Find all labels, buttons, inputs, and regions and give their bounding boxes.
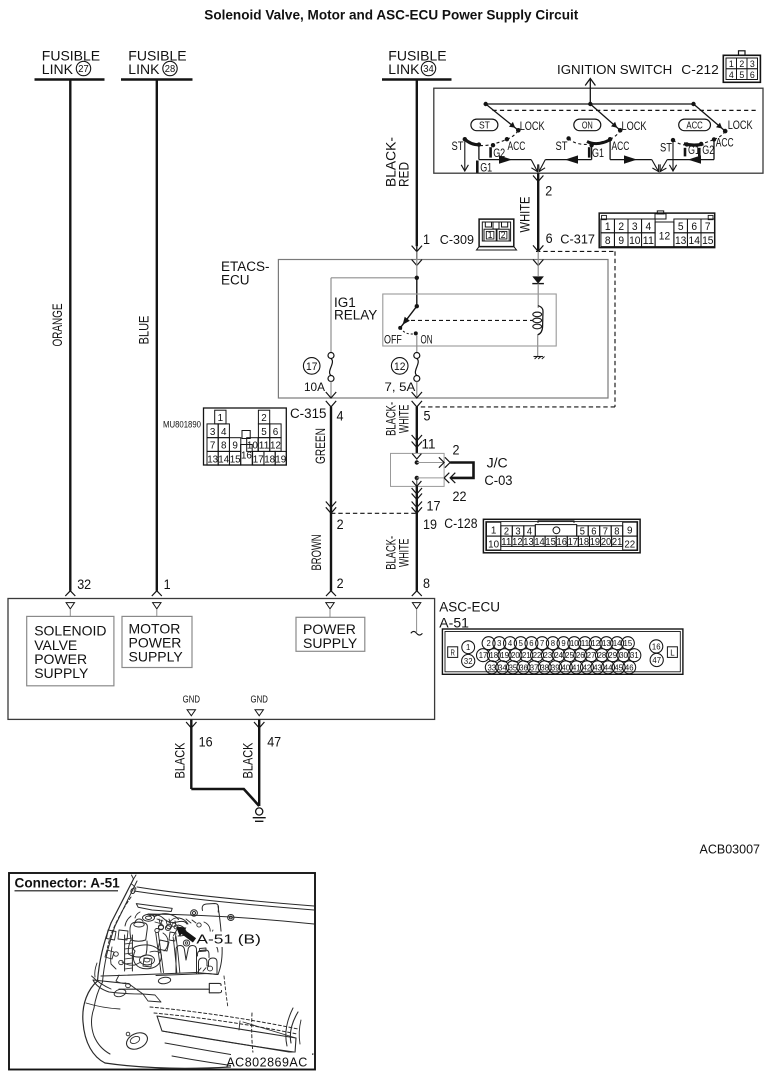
svg-text:ECU: ECU [221, 273, 250, 288]
svg-text:43: 43 [593, 662, 602, 672]
svg-text:RELAY: RELAY [334, 308, 377, 323]
svg-text:7: 7 [210, 440, 216, 452]
svg-text:21: 21 [612, 537, 623, 548]
svg-text:14: 14 [689, 235, 700, 247]
svg-text:13: 13 [523, 537, 534, 548]
svg-text:12: 12 [591, 638, 600, 648]
svg-text:3: 3 [632, 221, 638, 233]
svg-text:8: 8 [423, 576, 430, 591]
svg-text:1: 1 [488, 230, 493, 240]
svg-text:ACC: ACC [686, 120, 703, 132]
svg-text:1: 1 [423, 232, 430, 247]
svg-text:SUPPLY: SUPPLY [34, 665, 89, 681]
svg-text:1: 1 [491, 524, 497, 536]
svg-text:12: 12 [659, 231, 670, 243]
svg-text:8: 8 [605, 235, 611, 247]
svg-text:11: 11 [422, 436, 436, 451]
svg-text:ST: ST [479, 120, 490, 132]
svg-text:22: 22 [453, 489, 467, 504]
svg-text:5: 5 [678, 221, 684, 233]
svg-text:Connector: A-51: Connector: A-51 [15, 876, 121, 891]
svg-text:GND: GND [183, 694, 201, 706]
svg-text:1: 1 [605, 221, 611, 233]
svg-text:LOCK: LOCK [520, 119, 545, 133]
svg-text:7: 7 [705, 221, 711, 233]
svg-text:15: 15 [545, 537, 556, 548]
svg-text:5: 5 [519, 638, 523, 648]
svg-text:26: 26 [576, 650, 585, 660]
svg-text:20: 20 [601, 537, 612, 548]
svg-text:17: 17 [568, 537, 579, 548]
svg-text:28: 28 [165, 64, 176, 75]
svg-text:17: 17 [306, 361, 317, 373]
svg-text:14: 14 [534, 537, 545, 548]
svg-text:4: 4 [337, 408, 344, 423]
svg-text:R: R [451, 647, 455, 657]
svg-text:10: 10 [488, 538, 499, 550]
svg-text:A-51 (B): A-51 (B) [196, 932, 261, 947]
svg-text:46: 46 [625, 662, 634, 672]
svg-text:12: 12 [512, 537, 523, 548]
svg-text:30: 30 [619, 650, 628, 660]
svg-text:47: 47 [652, 655, 661, 665]
svg-text:10A: 10A [304, 382, 325, 394]
svg-text:BLACK: BLACK [241, 742, 256, 779]
svg-text:C-309: C-309 [440, 232, 474, 247]
svg-text:18: 18 [490, 650, 499, 660]
svg-text:5: 5 [261, 426, 267, 438]
svg-text:1: 1 [466, 642, 470, 652]
svg-text:WHITE: WHITE [397, 539, 412, 568]
svg-text:32: 32 [77, 577, 91, 592]
svg-text:42: 42 [583, 662, 592, 672]
svg-text:11: 11 [581, 638, 590, 648]
svg-text:19: 19 [590, 537, 601, 548]
svg-text:7: 7 [540, 638, 544, 648]
svg-text:17: 17 [479, 650, 488, 660]
svg-text:15: 15 [230, 453, 241, 465]
svg-text:2: 2 [486, 638, 490, 648]
svg-text:SUPPLY: SUPPLY [303, 635, 358, 651]
svg-text:LINK: LINK [128, 61, 160, 77]
svg-text:16: 16 [241, 450, 252, 462]
svg-text:12: 12 [270, 440, 281, 452]
svg-text:9: 9 [232, 440, 238, 452]
svg-text:LINK: LINK [42, 61, 74, 77]
svg-text:RED: RED [396, 162, 412, 187]
svg-text:44: 44 [604, 662, 613, 672]
svg-text:13: 13 [675, 235, 686, 247]
svg-text:25: 25 [565, 650, 574, 660]
svg-text:14: 14 [613, 638, 622, 648]
svg-text:41: 41 [572, 662, 581, 672]
svg-text:6: 6 [529, 638, 533, 648]
svg-text:GND: GND [251, 694, 269, 706]
svg-text:4: 4 [221, 426, 227, 438]
svg-text:ST: ST [452, 141, 464, 153]
svg-text:ST: ST [660, 143, 672, 155]
svg-text:37: 37 [530, 662, 539, 672]
svg-text:15: 15 [702, 235, 713, 247]
svg-text:11: 11 [501, 537, 512, 548]
svg-text:3: 3 [210, 426, 216, 438]
svg-text:24: 24 [554, 650, 563, 660]
svg-text:WHITE: WHITE [397, 405, 412, 434]
svg-text:2: 2 [337, 517, 344, 532]
svg-text:6: 6 [750, 70, 755, 81]
svg-text:2: 2 [501, 230, 506, 240]
svg-text:ACB03007: ACB03007 [700, 843, 761, 857]
svg-text:29: 29 [608, 650, 617, 660]
svg-text:2: 2 [261, 412, 267, 424]
svg-text:LOCK: LOCK [622, 119, 647, 133]
svg-text:6: 6 [691, 221, 697, 233]
svg-text:4: 4 [729, 70, 734, 81]
svg-text:14: 14 [218, 453, 229, 465]
svg-text:22: 22 [624, 538, 635, 550]
svg-text:35: 35 [509, 662, 518, 672]
svg-text:LOCK: LOCK [728, 118, 753, 132]
svg-text:LINK: LINK [388, 61, 420, 77]
svg-text:17: 17 [253, 453, 264, 465]
svg-text:19: 19 [275, 453, 286, 465]
svg-text:L: L [670, 647, 675, 657]
svg-text:21: 21 [522, 650, 531, 660]
svg-text:C-315: C-315 [290, 406, 327, 421]
svg-text:13: 13 [207, 453, 218, 465]
svg-text:34: 34 [498, 662, 507, 672]
svg-text:MU801890: MU801890 [163, 420, 201, 431]
svg-text:A-51: A-51 [439, 616, 469, 631]
svg-text:ACC: ACC [508, 141, 526, 153]
svg-text:C-03: C-03 [484, 473, 512, 488]
svg-text:18: 18 [579, 537, 590, 548]
svg-text:BLACK: BLACK [173, 742, 188, 779]
svg-text:C-128: C-128 [444, 516, 477, 531]
svg-text:BROWN: BROWN [309, 535, 324, 571]
svg-text:GREEN: GREEN [313, 428, 328, 464]
svg-text:16: 16 [199, 735, 213, 750]
svg-text:10: 10 [570, 638, 579, 648]
svg-text:9: 9 [561, 638, 565, 648]
svg-text:AC802869AC: AC802869AC [226, 1056, 307, 1070]
svg-text:1: 1 [164, 577, 171, 592]
svg-text:BLUE: BLUE [137, 316, 152, 345]
svg-text:11: 11 [643, 235, 654, 247]
svg-text:3: 3 [497, 638, 501, 648]
svg-text:5: 5 [424, 408, 431, 423]
svg-text:ASC-ECU: ASC-ECU [439, 600, 500, 615]
svg-text:5: 5 [739, 70, 744, 81]
svg-text:20: 20 [511, 650, 520, 660]
svg-text:G1: G1 [592, 148, 604, 160]
svg-text:32: 32 [464, 656, 473, 666]
svg-text:J/C: J/C [487, 455, 508, 470]
svg-text:28: 28 [598, 650, 607, 660]
svg-text:10: 10 [629, 235, 640, 247]
svg-text:40: 40 [561, 662, 570, 672]
svg-text:G2: G2 [702, 145, 714, 157]
svg-text:31: 31 [630, 650, 639, 660]
svg-text:C-212: C-212 [681, 62, 719, 77]
svg-text:ORANGE: ORANGE [50, 303, 65, 346]
svg-text:17: 17 [427, 498, 441, 513]
svg-text:G1: G1 [480, 163, 492, 175]
svg-text:16: 16 [557, 537, 568, 548]
svg-text:7, 5A: 7, 5A [385, 382, 416, 394]
svg-text:18: 18 [264, 453, 275, 465]
svg-text:C-317: C-317 [560, 231, 595, 246]
svg-text:2: 2 [337, 576, 344, 591]
svg-text:19: 19 [423, 517, 437, 532]
svg-text:8: 8 [551, 638, 555, 648]
svg-text:2: 2 [545, 183, 552, 198]
svg-text:4: 4 [508, 638, 512, 648]
svg-text:45: 45 [614, 662, 623, 672]
svg-text:6: 6 [546, 231, 553, 246]
svg-text:6: 6 [273, 426, 279, 438]
svg-text:8: 8 [221, 440, 227, 452]
svg-text:9: 9 [618, 235, 624, 247]
svg-text:ON: ON [582, 120, 593, 132]
svg-text:ON: ON [421, 335, 433, 347]
svg-text:13: 13 [602, 638, 611, 648]
svg-text:23: 23 [544, 650, 553, 660]
svg-text:WHITE: WHITE [518, 197, 533, 233]
svg-text:38: 38 [540, 662, 549, 672]
svg-text:Solenoid Valve, Motor and ASC-: Solenoid Valve, Motor and ASC-ECU Power … [204, 7, 578, 22]
svg-text:27: 27 [587, 650, 596, 660]
svg-text:47: 47 [267, 735, 281, 750]
svg-text:OFF: OFF [384, 335, 402, 347]
svg-text:11: 11 [259, 440, 270, 452]
svg-text:ST: ST [556, 141, 568, 153]
svg-text:27: 27 [78, 64, 89, 75]
svg-text:15: 15 [624, 638, 633, 648]
svg-text:ACC: ACC [716, 137, 734, 149]
svg-text:2: 2 [453, 442, 460, 457]
svg-text:22: 22 [533, 650, 542, 660]
svg-text:34: 34 [423, 64, 434, 75]
svg-text:SUPPLY: SUPPLY [129, 649, 184, 665]
svg-text:9: 9 [627, 524, 633, 536]
svg-text:2: 2 [618, 221, 624, 233]
svg-text:12: 12 [394, 361, 405, 373]
svg-text:36: 36 [519, 662, 528, 672]
svg-text:33: 33 [488, 662, 497, 672]
svg-text:39: 39 [551, 662, 560, 672]
svg-text:16: 16 [652, 641, 661, 651]
svg-text:IGNITION SWITCH: IGNITION SWITCH [557, 62, 672, 77]
svg-text:ACC: ACC [612, 141, 630, 153]
svg-text:1: 1 [218, 412, 224, 424]
svg-text:19: 19 [500, 650, 509, 660]
svg-text:4: 4 [645, 221, 651, 233]
